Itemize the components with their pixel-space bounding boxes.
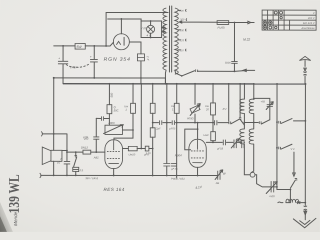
switch at reaction [290, 180, 295, 188]
grid resistor line [67, 151, 83, 153]
wave switch right of coil [254, 121, 259, 123]
resistor 50 [107, 105, 112, 114]
dial lamp box [141, 21, 162, 38]
svg-text:2µF: 2µF [155, 126, 161, 130]
capacitor uF05 y122 [172, 120, 174, 125]
svg-text:5W: 5W [76, 45, 82, 49]
svg-text:Anschlüsse: Anschlüsse [300, 26, 315, 30]
wire pot to grid node [122, 129, 132, 131]
value 2x8uF dashed link [66, 64, 90, 68]
antenna lead [304, 60, 306, 71]
drop x240 wave switch feed [239, 84, 241, 117]
wire HT y78 rail [54, 78, 166, 84]
coupling link circle [250, 172, 255, 177]
wire tuning to coupling coil [277, 190, 291, 203]
drop resistor Uw1 x133 [132, 84, 134, 103]
capacitor 5000 anode [223, 140, 225, 146]
svg-text:RES 164: RES 164 [104, 187, 125, 192]
svg-text:Ae: Ae [215, 181, 220, 185]
voltage table frame [262, 10, 316, 30]
svg-text:≈500: ≈500 [269, 194, 275, 198]
svg-text:150: 150 [180, 29, 185, 32]
svg-text:+: + [90, 55, 92, 59]
capacitor 2uF speaker [64, 161, 70, 164]
transformer core [169, 6, 171, 72]
capacitor grid REN y122 [215, 120, 217, 125]
resistor anode REN [212, 123, 214, 132]
grid coil column [253, 84, 255, 99]
svg-text:≈50: ≈50 [261, 101, 266, 104]
svg-text:µF03: µF03 [217, 146, 224, 150]
svg-text:+: + [58, 56, 60, 60]
REN904 grid loop [185, 129, 198, 150]
svg-text:50C: 50C [114, 109, 119, 113]
mains switch blade [175, 70, 182, 76]
svg-text:1,2V: 1,2V [146, 151, 152, 155]
svg-text:35V / 1A51: 35V / 1A51 [85, 176, 98, 180]
wire coil to earth lead [297, 202, 306, 204]
svg-text:µF05: µF05 [169, 126, 176, 130]
capacitor C-filter2 [93, 46, 95, 78]
main bus [63, 83, 305, 85]
wire HT inner loop [108, 19, 141, 21]
drop x176 resistor [176, 84, 178, 178]
wire bus drop to RF switch [228, 84, 230, 121]
intercoil wire [244, 121, 253, 123]
capacitor 2uF y122 [160, 120, 162, 125]
svg-text:DN12: DN12 [81, 146, 88, 150]
svg-text:20: 20 [205, 107, 209, 111]
svg-text:Mende: Mende [13, 211, 18, 225]
antenna symbol [299, 56, 310, 60]
tap label 240 [178, 9, 181, 11]
anode wire y142 [206, 141, 233, 143]
padder trimmer cap [267, 105, 273, 107]
switch lower right [279, 147, 281, 150]
svg-text:139 WL: 139 WL [5, 174, 22, 213]
tap arrows lamp to winding [162, 27, 166, 29]
REN904 cathode wire [197, 167, 199, 175]
tap label 150 [178, 29, 181, 31]
drop x152 resistor chain [152, 84, 154, 103]
dial lamp V23 [147, 25, 155, 33]
speaker jack top [41, 131, 42, 136]
svg-text:5000: 5000 [225, 61, 231, 65]
wire box to cap [62, 150, 67, 175]
wire HT outer loop [106, 12, 168, 46]
drop x277 [276, 84, 278, 190]
capacitor uF at x96 [93, 137, 99, 139]
primary bottom wire [164, 70, 167, 84]
table selector circles [263, 11, 282, 29]
wire heater down [140, 61, 142, 149]
earth connector break [304, 206, 307, 210]
wire bus junction to pot [108, 118, 110, 125]
wire rail to loop junction [85, 42, 113, 46]
speaker driver box [51, 150, 62, 161]
svg-text:PW30 / A51: PW30 / A51 [171, 177, 185, 181]
svg-text:M 22: M 22 [243, 38, 250, 42]
trimmer cap A [234, 139, 236, 148]
reaction coil horizontal [286, 199, 299, 202]
tap label 125 [178, 39, 181, 41]
svg-text:Uw2: Uw2 [203, 133, 209, 137]
page corner shadow bottom-left [0, 202, 13, 232]
fuse FU/Si [217, 21, 229, 25]
transformer primary winding [163, 8, 166, 70]
svg-text:4 V: 4 V [146, 33, 150, 37]
transformer secondary winding [175, 8, 178, 74]
REN904 top wire [197, 123, 199, 140]
svg-text:µ+G: µ+G [83, 135, 88, 139]
coil A upper [240, 99, 245, 113]
wire left column down [53, 78, 55, 175]
capacitor grid-line caps x100 [96, 117, 109, 119]
capacitor 25uF [163, 164, 170, 167]
coil B bottom wire [251, 144, 254, 173]
capacitor C 5000 mains [233, 22, 235, 71]
wire heater from tube right [129, 42, 141, 54]
earth lead [304, 84, 306, 220]
svg-text:2x8µF: 2x8µF [69, 65, 78, 69]
ground rail bottom [41, 174, 218, 176]
REN904 electrodes [197, 140, 199, 150]
svg-text:A51: A51 [93, 156, 99, 160]
drop x213 resistors [212, 84, 214, 123]
RES164 electrodes [113, 140, 115, 150]
trimmer cap B [242, 139, 244, 148]
RES164 cathode wire [113, 169, 115, 176]
wire jack to corner [42, 134, 67, 151]
switch blade to coil [240, 120, 244, 125]
resistor grid leak x152 [150, 128, 155, 137]
resistor upper x152 [150, 103, 155, 113]
svg-text:110: 110 [180, 49, 185, 52]
RGN354 filament [116, 41, 120, 44]
padder cap wire [254, 98, 270, 120]
jack bottom [40, 173, 41, 178]
speaker cone [42, 147, 51, 164]
wire B+ rail left [54, 45, 75, 47]
svg-text:600Ω: 600Ω [187, 116, 193, 120]
capacitor C-filter1 [62, 46, 64, 84]
svg-text:500: 500 [110, 92, 114, 97]
svg-text:V 23: V 23 [141, 26, 147, 30]
output tube RES164 envelope [105, 140, 123, 169]
coil A bottom wire [244, 144, 250, 175]
node rail-loop [105, 45, 107, 47]
drop heater-bias resistor x109 [108, 84, 110, 105]
svg-text:V: V [313, 11, 315, 15]
svg-text:V 1: V 1 [291, 147, 296, 151]
svg-text:110-125 V: 110-125 V [303, 21, 315, 25]
coil B lower [249, 129, 254, 144]
resistor R-filter 5k [75, 44, 85, 50]
AF tube REN904 envelope [189, 139, 206, 167]
wire fuse to mains arrow [229, 21, 251, 23]
resistor Uw10 [128, 146, 137, 150]
tuning capacitor [271, 181, 274, 192]
tap label 110 [178, 49, 181, 51]
antenna connector break [303, 72, 306, 76]
measurement arrow V1 [293, 152, 296, 176]
drop x166 electrolytic [166, 84, 168, 176]
svg-text:Uw10: Uw10 [129, 152, 136, 156]
node primary-bus [165, 83, 167, 85]
antenna coil column [243, 84, 245, 99]
capacitor block coupling [145, 146, 149, 151]
wire corner to cap below [95, 118, 97, 152]
svg-text:FU/Si: FU/Si [217, 26, 224, 30]
svg-text:220 V: 220 V [307, 16, 315, 20]
capacitor 0,1 tone [73, 167, 79, 171]
gridline y122 [153, 122, 229, 124]
svg-text:RGN 354: RGN 354 [104, 57, 131, 63]
coil A lower [240, 129, 245, 144]
wire anode up [120, 19, 122, 34]
coupling line RES164 grid [123, 147, 129, 149]
svg-text:220: 220 [179, 10, 185, 13]
svg-text:N904: N904 [175, 153, 182, 157]
node bus-antenna [304, 83, 306, 85]
switch upper right [279, 121, 281, 124]
capacitor C-block 1uF [137, 54, 144, 61]
earth symbol [304, 211, 307, 214]
tone switch [75, 152, 77, 155]
wire tap to fuse [179, 21, 217, 23]
svg-text:W: W [223, 172, 226, 176]
rectifier tube RGN354 circle [113, 34, 129, 50]
mains stub arrow lower [243, 69, 255, 71]
wire switch to arrow [198, 69, 246, 72]
drop x195 variable resistor [194, 84, 196, 123]
switch grid RF [229, 121, 231, 124]
resistor DN12 [83, 150, 91, 154]
trimmer Ae [218, 171, 220, 180]
coil B upper [249, 99, 254, 113]
RGN354 anode bar [123, 37, 125, 45]
svg-text:0,1: 0,1 [80, 168, 84, 172]
svg-text:Q: Q [114, 105, 116, 109]
node rail-C1 [62, 45, 64, 47]
svg-text:µ 1: µ 1 [146, 56, 150, 60]
svg-text:125: 125 [180, 39, 185, 42]
